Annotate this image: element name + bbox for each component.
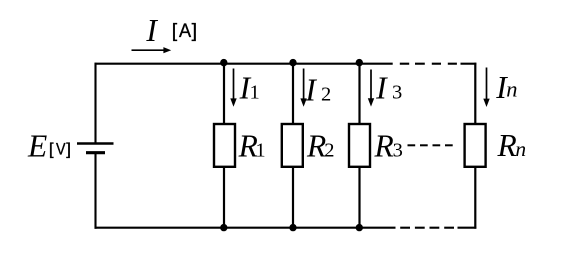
svg-text:I: I <box>304 72 317 107</box>
wire branch 3 upper <box>358 63 360 124</box>
wire left upper (top bus to battery) <box>94 63 96 144</box>
svg-text:2: 2 <box>321 83 331 105</box>
node branch1 bottom junction <box>220 224 227 231</box>
svg-text:1: 1 <box>255 140 265 162</box>
resistor Rn <box>465 124 486 167</box>
label I [A] with arrow <box>145 13 197 48</box>
svg-text:V: V <box>56 141 66 159</box>
label R2 <box>306 128 334 163</box>
label R3 <box>374 128 403 163</box>
label R1 <box>238 128 266 163</box>
svg-text:1: 1 <box>250 81 260 103</box>
svg-text:]: ] <box>192 20 197 42</box>
label I3 <box>375 71 402 106</box>
svg-text:3: 3 <box>392 82 402 104</box>
svg-text:R: R <box>374 128 394 163</box>
wire bottom bus dashed segment <box>400 227 454 229</box>
resistor R1 <box>214 124 235 167</box>
wire branch 2 lower <box>292 168 294 228</box>
wire top right solid segment <box>461 63 477 65</box>
wire branch 1 upper <box>223 63 225 124</box>
wire branch 3 lower <box>358 168 360 228</box>
label In <box>495 70 517 105</box>
wire branch n upper <box>474 63 476 124</box>
resistor R3 <box>349 124 370 167</box>
battery E long plate <box>77 142 114 145</box>
svg-text:n: n <box>515 137 526 161</box>
wire branch 2 upper <box>292 63 294 124</box>
resistor R2 <box>282 124 303 167</box>
node branch1 top junction <box>220 59 227 66</box>
wire branch 1 lower <box>223 168 225 228</box>
svg-text:3: 3 <box>393 140 403 162</box>
svg-text:2: 2 <box>324 139 334 161</box>
svg-text:I: I <box>145 13 158 48</box>
label Rn <box>497 128 527 163</box>
svg-text:E: E <box>27 129 47 164</box>
arrow current I2 <box>300 69 306 107</box>
dashed ellipsis between R3 and Rn <box>408 144 453 146</box>
wire bottom right solid segment <box>458 227 477 229</box>
wire top bus solid segment <box>95 63 393 65</box>
node branch3 bottom junction <box>356 224 363 231</box>
node branch3 top junction <box>356 59 363 66</box>
arrow current I1 <box>230 69 236 107</box>
label I2 <box>304 72 331 107</box>
svg-text:[: [ <box>49 140 54 159</box>
battery E short plate <box>86 151 105 154</box>
svg-text:]: ] <box>66 140 71 159</box>
arrow for current I <box>132 47 172 53</box>
svg-text:I: I <box>375 71 388 106</box>
node branch2 top junction <box>289 59 296 66</box>
wire top bus dashed segment <box>400 63 457 65</box>
label I1 <box>239 70 260 105</box>
svg-text:[: [ <box>172 20 178 42</box>
svg-text:R: R <box>497 128 517 163</box>
arrow current In <box>483 68 489 108</box>
svg-text:n: n <box>506 76 517 101</box>
svg-text:A: A <box>179 19 192 41</box>
wire branch n lower <box>474 168 476 229</box>
arrow current I3 <box>368 70 374 107</box>
node branch2 bottom junction <box>289 224 296 231</box>
wire left lower (battery to bottom bus) <box>94 153 96 229</box>
label E [V] <box>27 129 71 164</box>
wire bottom bus solid segment <box>95 227 396 229</box>
